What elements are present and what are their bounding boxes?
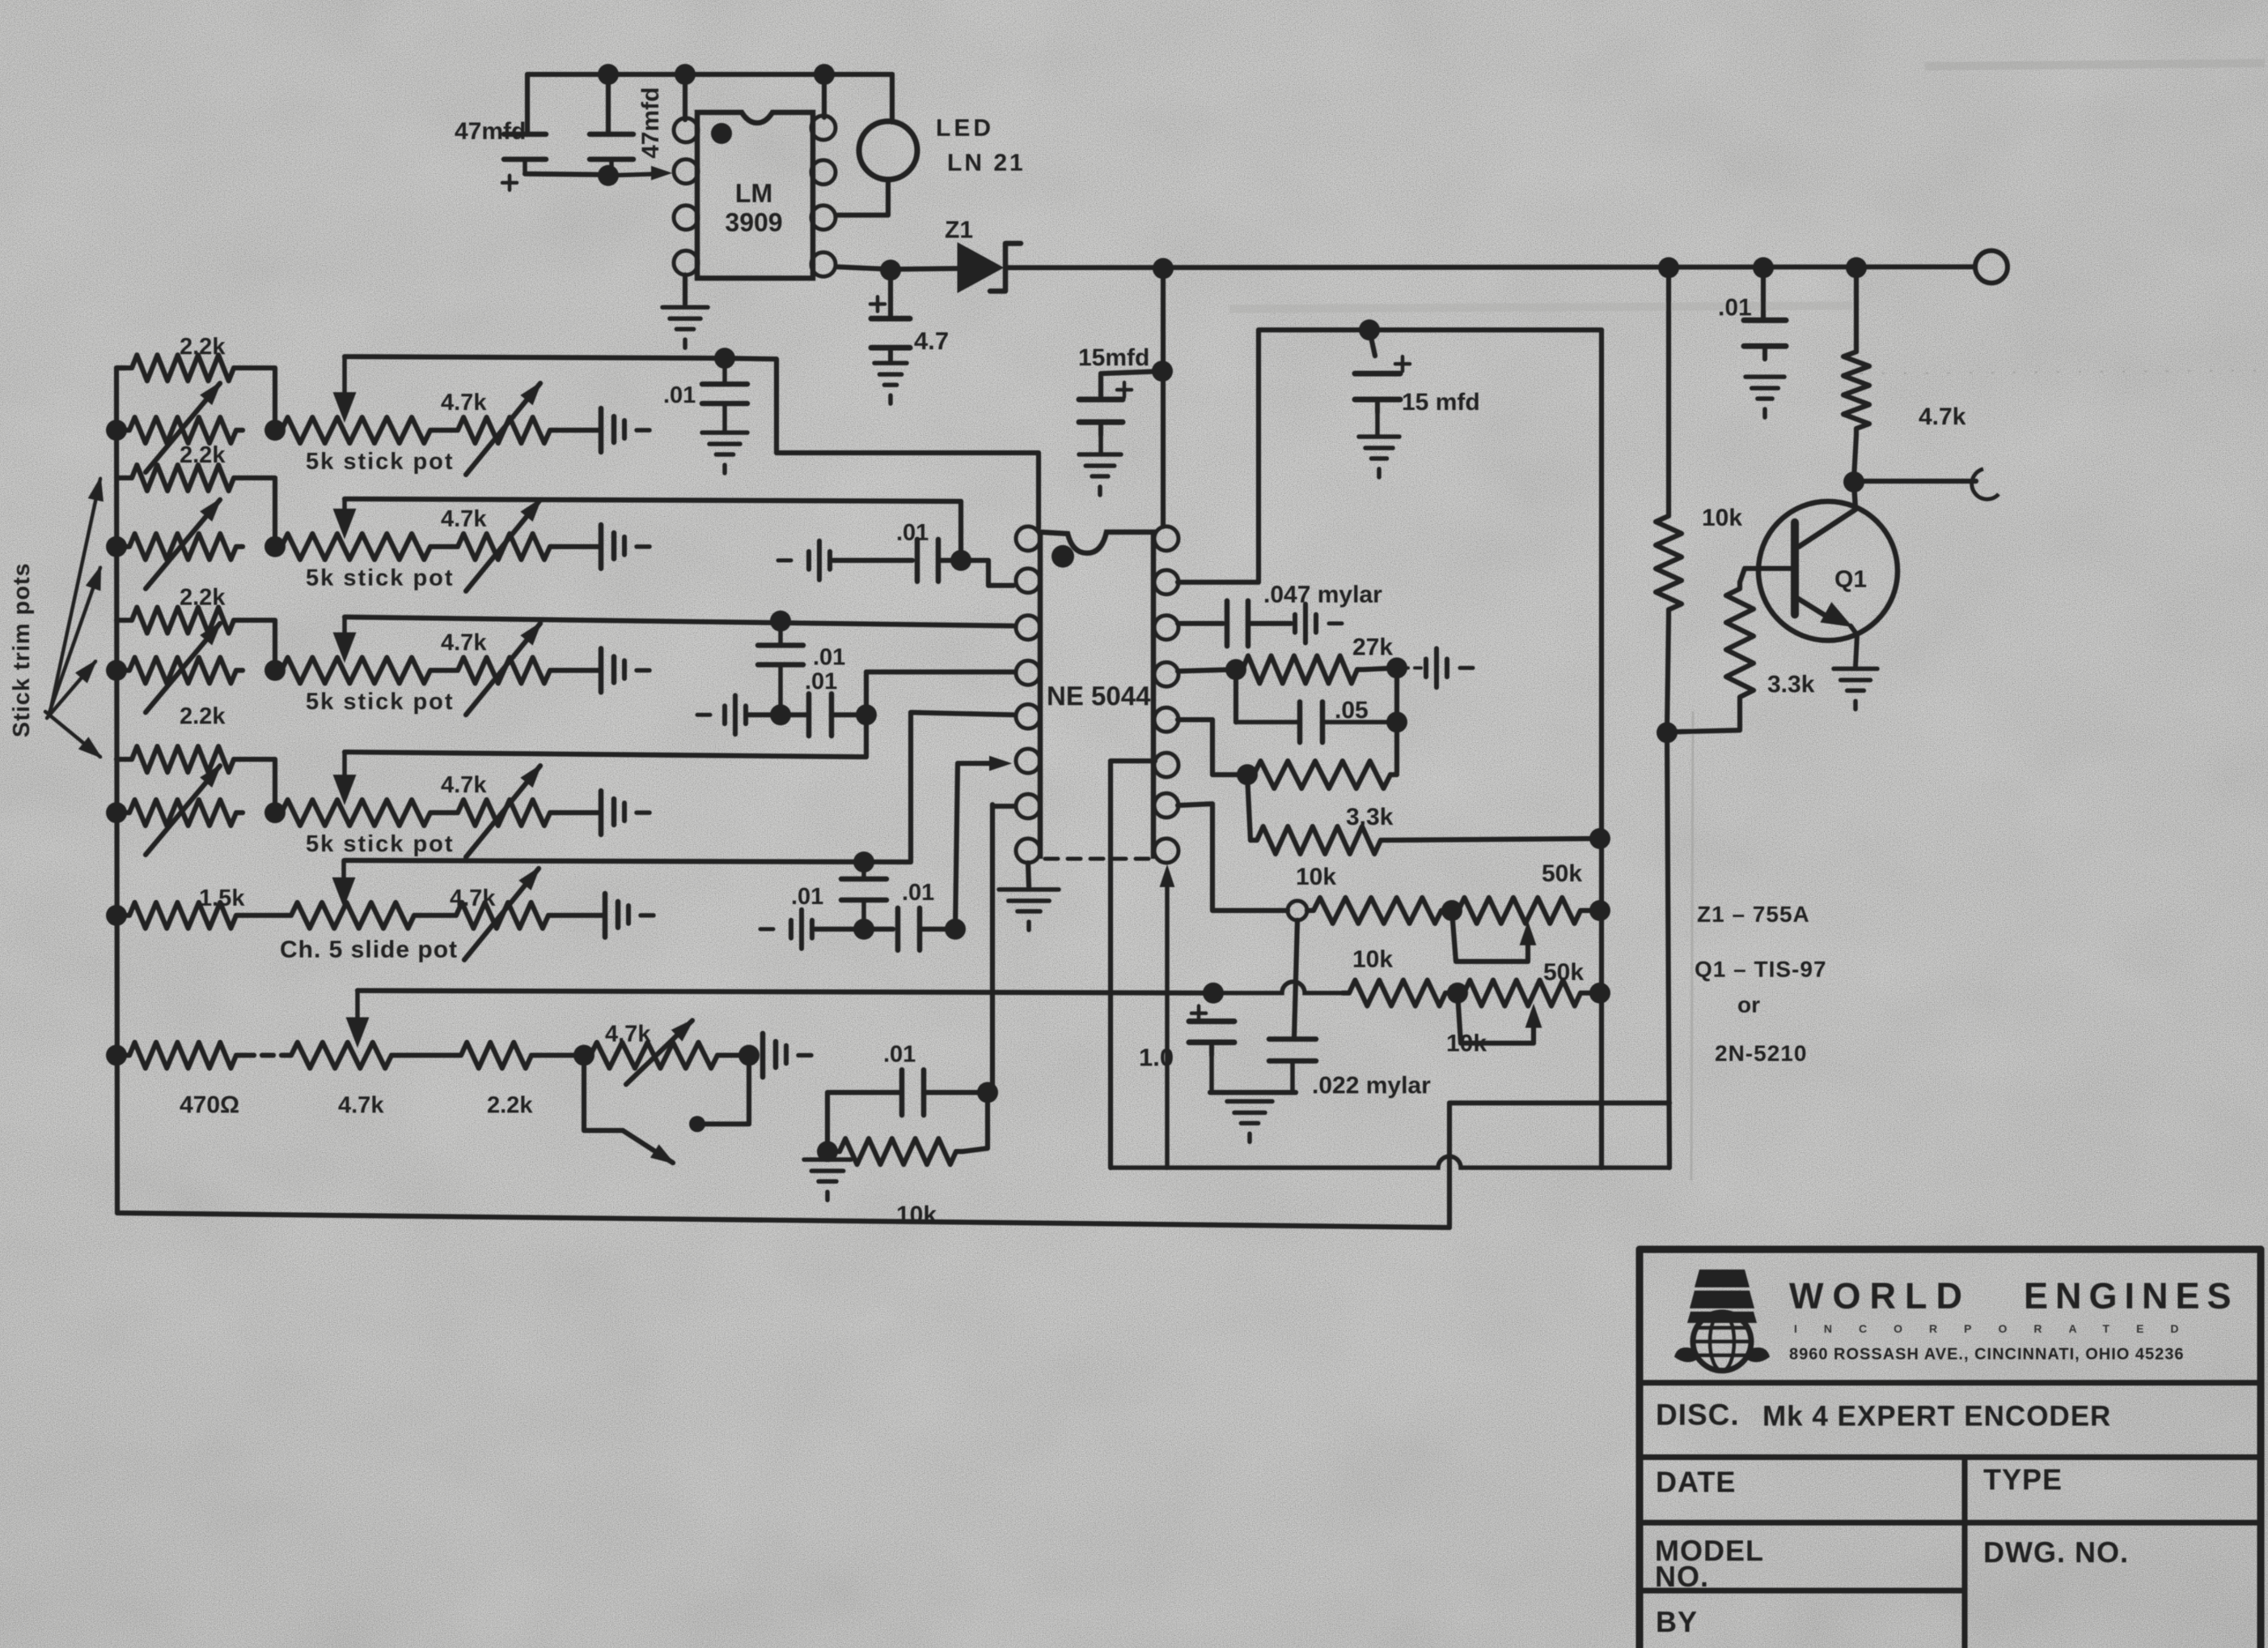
pin R2 U2 bbox=[811, 160, 836, 184]
svg-text:.05: .05 bbox=[1335, 697, 1369, 724]
wire cap C2 top leg bbox=[606, 74, 611, 134]
svg-text:4.7k: 4.7k bbox=[605, 1021, 651, 1047]
junction dot 1.0 top bbox=[1203, 982, 1224, 1004]
wire 50k1 tie bbox=[1587, 908, 1600, 913]
svg-text:8960 ROSSASH AVE., CINCINNA: 8960 ROSSASH AVE., CINCINNATI, OHIO 4523… bbox=[1789, 1346, 2185, 1363]
svg-text:10k: 10k bbox=[1446, 1030, 1487, 1057]
wire 15mfd no1 lead bbox=[1101, 371, 1162, 398]
wire pin R1 up bbox=[1161, 268, 1166, 526]
wire 10k to cap dot bbox=[963, 1092, 988, 1151]
label 4.7k row4 bbox=[441, 772, 487, 798]
wire pin L7 down bbox=[992, 806, 1013, 1090]
pin L7 U1 bbox=[1016, 794, 1040, 818]
stick pot 5k row2 bbox=[275, 534, 437, 560]
junction dot n7 bbox=[1658, 257, 1679, 278]
svg-text:NO.: NO. bbox=[1655, 1560, 1709, 1593]
pot 4.7k arrow row3 bbox=[466, 623, 540, 715]
diode Z1 zener bar bbox=[990, 243, 1021, 291]
label 10k right bbox=[1702, 505, 1742, 531]
junction dot bus row6 bbox=[106, 1045, 127, 1066]
pin R8 U1 bbox=[1154, 839, 1178, 863]
wire U2 pin4 to ground bbox=[683, 275, 688, 304]
svg-text:INCORPORATED: INCORPORATED bbox=[1794, 1322, 2206, 1335]
svg-text:Z1 – 755A: Z1 – 755A bbox=[1697, 902, 1810, 927]
wire row5 batt lead bbox=[815, 927, 859, 932]
label 4.7k row5 bbox=[450, 885, 496, 911]
wire .05 left leg bbox=[1233, 670, 1238, 722]
wire main rail bbox=[1005, 267, 1974, 268]
svg-text:2.2k: 2.2k bbox=[180, 585, 226, 611]
svg-text:.047 mylar: .047 mylar bbox=[1263, 581, 1382, 608]
wire row5 a bbox=[243, 913, 285, 918]
svg-text:4.7k: 4.7k bbox=[1919, 404, 1966, 430]
slide pot wiper row5 bbox=[333, 860, 354, 906]
wire row5 rail bbox=[345, 712, 1013, 862]
label 3.3k right bbox=[1767, 671, 1815, 698]
junction dot row3 cap bbox=[770, 611, 791, 632]
svg-text:3909: 3909 bbox=[725, 208, 782, 237]
wire row5 mid lead bbox=[864, 927, 893, 932]
label 1.0 bbox=[1139, 1043, 1174, 1071]
wire cap 4.7 leg bbox=[888, 270, 893, 317]
slide wiper row6 bbox=[347, 991, 368, 1046]
resistor 3.3k mid bbox=[1250, 826, 1387, 854]
junction dot n1 bbox=[598, 64, 619, 85]
svg-text:3.3k: 3.3k bbox=[1346, 804, 1394, 830]
wire left bus bbox=[116, 368, 125, 1213]
label 5k stick pot row4 bbox=[306, 831, 455, 857]
resistor 470ohm row6 bbox=[123, 1042, 243, 1068]
wire pin L7 stub bbox=[990, 805, 995, 806]
label Q1 bbox=[1834, 566, 1867, 593]
resistor 10k bottom bbox=[833, 1139, 963, 1164]
resistor 10k no2 bbox=[1343, 980, 1452, 1006]
junction dot n9 bbox=[1846, 257, 1867, 278]
capacitor C1 47mfd bbox=[504, 134, 605, 175]
wire pin R2 loop bbox=[1178, 330, 1602, 1168]
transistor Q1 emitter bbox=[1796, 598, 1857, 666]
label 1.5k bbox=[199, 885, 245, 911]
ground Q1 bbox=[1834, 669, 1877, 709]
wire rail corner to LED bbox=[890, 74, 895, 122]
slide pot row5 bbox=[285, 902, 421, 928]
label 50k no2 bbox=[1543, 959, 1584, 986]
capacitor end row5 bbox=[605, 894, 654, 937]
label 2.2k row2 bbox=[180, 442, 226, 468]
svg-text:4.7: 4.7 bbox=[914, 327, 949, 355]
junction dot 27k r bbox=[1386, 657, 1407, 678]
logo world engines globe bbox=[1674, 1270, 1770, 1371]
junction dot 15mfd tap bbox=[1152, 361, 1173, 382]
capacitor .01 row1 bbox=[702, 358, 747, 431]
wire bus branch 2.2k row3 bbox=[116, 618, 125, 623]
pot 4.7k arrow row1 bbox=[466, 383, 540, 475]
wire row2 to pin L2 bbox=[961, 560, 1013, 585]
wire row2 cap to dot bbox=[941, 558, 961, 563]
capacitor .01 row5 lower bbox=[898, 908, 920, 950]
wire Z1 plus lead bbox=[870, 297, 885, 311]
wire 2.2k to node row3 bbox=[240, 620, 275, 670]
wiper 50k no2 bbox=[1458, 993, 1541, 1043]
resistor 4.7k right bbox=[1843, 345, 1869, 435]
capacitor .01 row5 upper bbox=[841, 862, 886, 927]
label 10k bottom bbox=[896, 1202, 937, 1228]
trim pot arrow row1 bbox=[146, 383, 220, 472]
wire 50k2 tie bbox=[1587, 991, 1600, 995]
pin L4 U2 bbox=[674, 251, 698, 275]
wire row3 mid bbox=[437, 668, 451, 673]
svg-text:4.7k: 4.7k bbox=[338, 1092, 384, 1118]
capacitor .022 mylar bbox=[1269, 1039, 1316, 1091]
capacitor 15mfd no2 bbox=[1355, 374, 1400, 435]
arrow trim annot 3 bbox=[47, 661, 95, 718]
resistor mid 3.3k upper bbox=[1247, 761, 1397, 788]
plus 15mfd no1 bbox=[1117, 382, 1132, 397]
junction dot q1 base net bbox=[1657, 722, 1678, 743]
label 4.7k row6 bbox=[338, 1092, 384, 1118]
svg-text:10k: 10k bbox=[896, 1202, 937, 1228]
svg-text:Mk 4 EXPERT ENCODER: Mk 4 EXPERT ENCODER bbox=[1762, 1401, 2111, 1432]
wire switch pole leg bbox=[584, 1055, 623, 1130]
svg-text:BY: BY bbox=[1656, 1605, 1698, 1638]
junction dot r5net bbox=[1237, 764, 1258, 785]
pin R5 U1 bbox=[1154, 708, 1178, 732]
trim pot row3 bbox=[123, 657, 243, 683]
label 4.7k row2 bbox=[441, 506, 487, 532]
trim pot row1 bbox=[123, 417, 243, 443]
switch arm arrow bbox=[623, 1130, 673, 1163]
label 15 mfd bbox=[1402, 389, 1480, 416]
svg-text:10k: 10k bbox=[1352, 946, 1393, 973]
svg-text:3.3k: 3.3k bbox=[1767, 671, 1815, 698]
label .01 bottom bbox=[883, 1042, 916, 1067]
ground U2 bbox=[662, 307, 708, 348]
pot 4.7k arrow row6b bbox=[626, 1020, 692, 1084]
label 3.3k mid bbox=[1346, 804, 1394, 830]
svg-text:or: or bbox=[1737, 992, 1760, 1017]
diode Z1 triangle bbox=[958, 244, 1001, 291]
wire cap C1 left leg bbox=[525, 74, 530, 134]
resistor 3.3k right bbox=[1726, 582, 1754, 704]
svg-text:15mfd: 15mfd bbox=[1078, 344, 1149, 371]
svg-text:.01: .01 bbox=[1718, 294, 1752, 321]
svg-text:10k: 10k bbox=[1296, 864, 1336, 890]
label 2.2k row6 bbox=[487, 1092, 533, 1118]
junction dot row5 n bbox=[853, 851, 874, 873]
label 5k stick pot row2 bbox=[306, 565, 455, 591]
wiper 50k no1 bbox=[1452, 911, 1535, 961]
pin L3 U1 bbox=[1016, 615, 1040, 640]
wire 27k to dot bbox=[1364, 668, 1397, 670]
label MODEL bbox=[1655, 1534, 1764, 1567]
scan crease artifact bbox=[1691, 712, 1693, 1181]
arrow trim annot 2 bbox=[49, 568, 100, 715]
wire row1 mid bbox=[437, 428, 451, 433]
plus 1.0 bbox=[1191, 1006, 1206, 1020]
junction dot n8 bbox=[1753, 257, 1774, 278]
junction dot 10k2 r bbox=[1447, 982, 1468, 1004]
label DWG NO bbox=[1983, 1536, 2129, 1569]
ground cap 4.7 bbox=[874, 363, 907, 404]
svg-text:.01: .01 bbox=[902, 880, 934, 906]
label 4.7k row1 bbox=[441, 390, 487, 416]
pot 4.7k row2 bbox=[451, 534, 556, 560]
pin R6 U1 bbox=[1154, 753, 1178, 777]
battery minus row2 bbox=[778, 541, 830, 580]
junction dot n5 bbox=[880, 260, 901, 281]
junction dot row5 mid bbox=[853, 919, 874, 940]
svg-text:.01: .01 bbox=[805, 669, 837, 695]
svg-text:NE 5044: NE 5044 bbox=[1047, 681, 1151, 711]
svg-text:ENGINES: ENGINES bbox=[2024, 1275, 2239, 1316]
arrow trim annot 1 bbox=[50, 479, 103, 712]
junction dot node row1 bbox=[264, 420, 286, 441]
wire row3 to cap bbox=[556, 668, 599, 673]
capacitor .01 row3 lower bbox=[809, 694, 831, 736]
label LED bbox=[936, 115, 994, 142]
svg-text:4.7k: 4.7k bbox=[441, 630, 487, 656]
wire row3 up to pin L4 bbox=[866, 672, 1013, 715]
junction dot row6 sw bbox=[573, 1045, 595, 1066]
svg-text:15 mfd: 15 mfd bbox=[1402, 389, 1480, 416]
svg-text:27k: 27k bbox=[1352, 634, 1393, 661]
ground U1 bbox=[999, 889, 1059, 930]
pot 50k no1 bbox=[1452, 898, 1587, 923]
junction dot collector bbox=[1843, 471, 1864, 492]
svg-text:4.7k: 4.7k bbox=[441, 390, 487, 416]
svg-text:LED: LED bbox=[936, 115, 994, 142]
pin R7 U1 bbox=[1154, 793, 1178, 818]
wire row6 to cap bbox=[724, 1053, 747, 1058]
wire switch contact leg bbox=[702, 1055, 749, 1124]
trim pot arrow row3 bbox=[146, 623, 220, 712]
label .01 row5 upper bbox=[791, 884, 823, 910]
junction dot n3 bbox=[675, 64, 696, 85]
wire row2 rail bbox=[345, 499, 961, 551]
label .01 row1 bbox=[663, 382, 696, 408]
ground 10k bottom bbox=[804, 1160, 851, 1200]
pin L5 U1 bbox=[1016, 704, 1040, 729]
label .05 bbox=[1335, 697, 1369, 724]
wire bus branch 2.2k row4 bbox=[116, 757, 125, 762]
battery 27k end bbox=[1426, 649, 1473, 687]
pot 4.7k row3 bbox=[451, 657, 556, 683]
pin L2 U1 bbox=[1016, 568, 1040, 593]
svg-text:2.2k: 2.2k bbox=[180, 704, 226, 729]
plus mark C1 bbox=[502, 175, 517, 190]
label NO. bbox=[1655, 1560, 1709, 1593]
label address bbox=[1789, 1346, 2185, 1363]
label 10k no3 bbox=[1446, 1030, 1487, 1057]
plus 15mfd no2 bbox=[1395, 357, 1410, 371]
junction dot row2 n bbox=[950, 550, 971, 571]
wire pin R3 lead bbox=[1178, 621, 1223, 626]
LED LN21 body bbox=[859, 121, 917, 180]
junction dot 15mfd2 tap bbox=[1359, 319, 1380, 340]
wire .05 node down bbox=[1394, 668, 1399, 772]
wire row5 b bbox=[421, 913, 450, 918]
wire 15mfd no2 lead bbox=[1369, 330, 1375, 356]
resistor 2.2k row6 bbox=[455, 1042, 538, 1068]
label 4.7k right bbox=[1919, 404, 1966, 430]
wire 10k right leg b bbox=[1667, 616, 1669, 730]
svg-text:.01: .01 bbox=[791, 884, 823, 910]
pot 50k no2 bbox=[1458, 980, 1587, 1006]
capacitor .01 row2 bbox=[917, 539, 938, 581]
wire row6rail jump bbox=[1210, 982, 1343, 993]
resistor 10k right bbox=[1656, 509, 1682, 616]
svg-text:.022 mylar: .022 mylar bbox=[1312, 1072, 1431, 1099]
wire 27k dash lead bbox=[1402, 666, 1422, 670]
svg-text:2.2k: 2.2k bbox=[487, 1092, 533, 1118]
junction dot row3 r bbox=[856, 704, 877, 725]
pin L6 U1 bbox=[1016, 749, 1040, 773]
label 2N-5210 bbox=[1715, 1041, 1807, 1066]
wire row2 to cap bbox=[556, 544, 599, 549]
junction dot node row4 bbox=[264, 802, 286, 823]
wire U1 ground leg bbox=[1028, 863, 1029, 886]
stick pot 5k row3 bbox=[275, 657, 437, 683]
wire 4.7k to collector bbox=[1854, 435, 1856, 479]
svg-text:2.2k: 2.2k bbox=[180, 442, 226, 468]
wire row1 rail b bbox=[725, 358, 1039, 528]
label 27k bbox=[1352, 634, 1393, 661]
switch contact dot bbox=[689, 1116, 705, 1132]
label Z1 bbox=[945, 217, 973, 243]
wire pin8 U2 to rail bbox=[822, 74, 827, 117]
trim pot row2 bbox=[123, 534, 243, 560]
capacitor C2 47mfd bbox=[590, 134, 633, 172]
resistor 2.2k row1 bbox=[125, 355, 240, 381]
wire LED to U2 pin6 bbox=[838, 180, 888, 215]
pot 4.7k row5 bbox=[450, 902, 555, 928]
label Stick trim pots bbox=[9, 563, 35, 737]
wire arrow into pin 2 of U2 bbox=[608, 167, 670, 180]
wire 2.2k to node row1 bbox=[240, 368, 275, 430]
stick pot 5k row4 bbox=[275, 800, 437, 826]
op-amp U2 LM3909 body bbox=[697, 112, 813, 278]
capacitor end row3 bbox=[601, 649, 650, 692]
stick pot 5k row1 bbox=[275, 417, 437, 443]
svg-text:LN 21: LN 21 bbox=[947, 150, 1026, 176]
junction dot .05 r bbox=[1386, 712, 1407, 733]
pot 4.7k row4 bbox=[451, 800, 556, 826]
svg-text:.01: .01 bbox=[813, 644, 845, 670]
junction dot bus row4 bbox=[106, 802, 127, 823]
label Z1 755A bbox=[1697, 902, 1810, 927]
label LN 21 bbox=[947, 150, 1026, 176]
wire 3.3k left leg bbox=[1247, 775, 1250, 840]
wire bus branch 2.2k row2 bbox=[116, 475, 125, 480]
pin R4 U1 bbox=[1154, 662, 1178, 687]
wire collector terminal bbox=[1854, 479, 1976, 484]
pot 4.7k arrow row4 bbox=[466, 766, 540, 857]
svg-text:4.7k: 4.7k bbox=[441, 772, 487, 798]
wire .047 lead bbox=[1248, 621, 1291, 626]
label 2.2k row3 bbox=[180, 585, 226, 611]
junction dot n2 bbox=[598, 165, 619, 186]
wire oscillator top rail bbox=[527, 72, 892, 77]
capacitor 4.7 bbox=[871, 319, 910, 361]
svg-text:4.7k: 4.7k bbox=[450, 885, 496, 911]
label .01 row3 lower bbox=[805, 669, 837, 695]
wire row1 rail to pin L1 bbox=[345, 357, 725, 358]
capacitor end row4 bbox=[601, 791, 650, 835]
stick pot wiper row4 bbox=[334, 752, 355, 803]
wire 2.2k to node row2 bbox=[240, 478, 275, 547]
label .01 row3 upper bbox=[813, 644, 845, 670]
battery .047 end bbox=[1295, 604, 1342, 643]
pot 4.7k row6b bbox=[584, 1042, 724, 1068]
junction dot 50k2 r bbox=[1589, 982, 1610, 1004]
capacitor .01 right bbox=[1744, 320, 1786, 359]
wire U2 pin5 to rail bbox=[837, 267, 891, 269]
label U2 3909 bbox=[725, 208, 782, 237]
junction dot bus row5 bbox=[106, 905, 127, 926]
wire row5 to cap bbox=[555, 913, 603, 918]
label 2.2k row4 bbox=[180, 704, 226, 729]
junction dot 27k l bbox=[1225, 659, 1246, 680]
terminal battery plus bbox=[1975, 251, 2008, 283]
pin L3 U2 bbox=[674, 205, 698, 230]
stick pot wiper row3 bbox=[334, 617, 355, 661]
label U1 NE 5044 bbox=[1047, 681, 1151, 711]
wire row1 to cap bbox=[556, 428, 599, 433]
capacitor end row6 bbox=[763, 1033, 811, 1077]
svg-text:LM: LM bbox=[735, 179, 772, 208]
pin R1 U1 bbox=[1154, 526, 1178, 551]
label 4.7 bbox=[914, 327, 949, 355]
label BY bbox=[1656, 1605, 1698, 1638]
label Mk 4 EXPERT ENCODER bbox=[1762, 1401, 2111, 1432]
label .01 row2 bbox=[896, 520, 929, 546]
label 50k no1 bbox=[1542, 860, 1582, 887]
terminal output bbox=[1972, 469, 1999, 499]
svg-text:DISC.: DISC. bbox=[1656, 1398, 1740, 1431]
pin R3 U1 bbox=[1154, 615, 1178, 640]
svg-text:.01: .01 bbox=[663, 382, 696, 408]
wire pin R4 lead bbox=[1178, 670, 1233, 671]
svg-text:2.2k: 2.2k bbox=[180, 334, 226, 360]
label 5k stick pot row1 bbox=[306, 449, 455, 475]
capacitor 15mfd no1 bbox=[1079, 399, 1123, 453]
wire pin R5 loop bbox=[1178, 720, 1242, 775]
pot 4.7k arrow row5 bbox=[464, 868, 539, 960]
wire row3 batt lead bbox=[749, 712, 776, 717]
battery minus row3 bbox=[697, 695, 746, 734]
wire row6 dashes bbox=[243, 1053, 285, 1058]
label U2 LM bbox=[735, 179, 772, 208]
resistor 2.2k row4 bbox=[125, 746, 240, 772]
label 2.2k row1 bbox=[180, 334, 226, 360]
resistor 1.5k row5 bbox=[123, 902, 243, 928]
pin 1 mark U1 bbox=[1051, 545, 1074, 568]
junction dot bus row1 bbox=[106, 420, 127, 441]
svg-text:47mfd: 47mfd bbox=[455, 118, 526, 145]
junction dot row5 r bbox=[945, 919, 966, 940]
label 10k no2 bbox=[1352, 946, 1393, 973]
svg-text:5k stick pot: 5k stick pot bbox=[306, 449, 455, 475]
resistor 10k no1 bbox=[1307, 898, 1448, 923]
pin L4 U1 bbox=[1016, 661, 1040, 685]
junction dot node row2 bbox=[264, 536, 286, 557]
svg-text:5k stick pot: 5k stick pot bbox=[306, 565, 455, 591]
label .022 mylar bbox=[1312, 1072, 1431, 1099]
wire bus branch 2.2k row1 bbox=[116, 366, 125, 370]
label .01 right bbox=[1718, 294, 1752, 321]
pin L1 U2 bbox=[674, 118, 698, 142]
capacitor .05 bbox=[1236, 702, 1393, 742]
